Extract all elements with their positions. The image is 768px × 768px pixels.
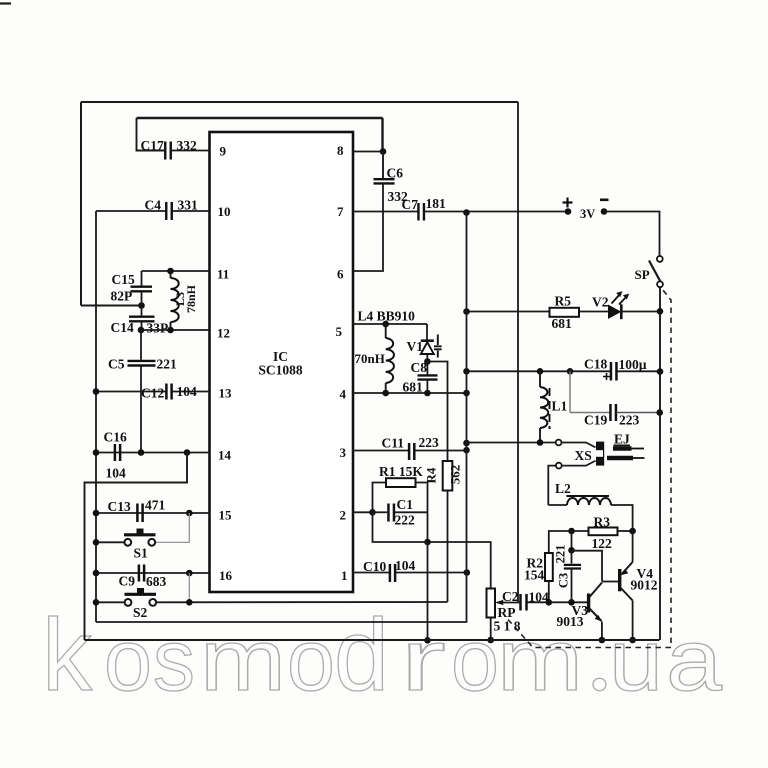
capacitor C15 (131, 287, 153, 292)
svg-text:332: 332 (177, 138, 198, 153)
wire C17 loop top (137, 117, 383, 119)
capacitor C12 (166, 384, 171, 400)
node C15-C14 junction (antenna tap) (138, 302, 145, 309)
junction battery row / long vertical (463, 209, 470, 216)
capacitor C14 (129, 317, 155, 322)
svg-text:R4: R4 (424, 467, 439, 483)
svg-text:104: 104 (106, 466, 127, 481)
svg-text:70nH: 70nH (355, 351, 385, 366)
switch S2 right contact (149, 599, 156, 606)
wire R1 loop left (373, 483, 387, 513)
wire R3 box to right node (618, 530, 633, 532)
svg-text:221: 221 (554, 545, 568, 564)
svg-text:u: u (609, 612, 663, 709)
switch S2 cap bar (125, 593, 157, 596)
LED V2 cathode bar (620, 304, 623, 319)
svg-text:9: 9 (220, 144, 227, 159)
capacitor C13 (137, 504, 142, 523)
svg-text:3: 3 (340, 445, 347, 460)
potentiometer RP body (487, 589, 496, 618)
junction base row / C3 (568, 599, 575, 606)
svg-text:8: 8 (337, 143, 344, 158)
svg-text:C9: C9 (119, 574, 136, 589)
wire C12 to left bus (96, 391, 166, 393)
wire pin12 row (141, 329, 210, 331)
svg-text:223: 223 (419, 435, 440, 450)
wire R3 node to R2 (549, 531, 572, 553)
svg-text:XS: XS (575, 448, 592, 463)
svg-text:683: 683 (146, 574, 167, 589)
junction C8 bottom / pin4 row (424, 390, 431, 397)
wire pin8 node down to C6 (382, 152, 384, 180)
svg-text:V2: V2 (592, 295, 609, 310)
svg-text:S1: S1 (134, 546, 149, 561)
svg-text:C14: C14 (111, 320, 134, 335)
junction S1 row / left bus (93, 539, 100, 546)
switch S1 button nub (137, 529, 144, 534)
capacitor C7 (418, 203, 424, 221)
svg-text:C18: C18 (584, 357, 607, 372)
wire V4 base row (602, 581, 618, 583)
svg-text:C13: C13 (108, 499, 131, 514)
wire pin2 node down to audio row (373, 512, 428, 542)
svg-text:R3: R3 (594, 515, 611, 530)
wire XS tip to plug (562, 443, 596, 448)
junction C5 / pin14 row (138, 449, 145, 456)
wire R3 node down (571, 531, 573, 550)
wire C3 top lead (571, 550, 573, 563)
LED V2 triangle (609, 305, 621, 318)
wire V4 collector to ground row (632, 601, 634, 641)
wire V3 base row (528, 601, 588, 603)
svg-text:16: 16 (219, 568, 233, 583)
junction L1 bottom / XS row (537, 439, 544, 446)
junction V4 collector / bottom row (629, 637, 636, 644)
wire pin4 row (353, 392, 467, 394)
wire L4 top lead (385, 324, 387, 338)
wire L2 left lead (548, 504, 567, 506)
resistor R1 body (386, 478, 416, 487)
capacitor C10 (390, 564, 395, 582)
wire C3 node to V4 base corner (572, 551, 603, 582)
capacitor C9 (139, 565, 144, 582)
wire antenna row into C15/C14 node (81, 305, 142, 307)
wire S2 to R4 bottom row (157, 601, 448, 603)
wire pin3 stub to C11 (353, 450, 409, 452)
op-amp/IC U1 SC1088 body (210, 132, 354, 592)
varactor V1 capacitor mark (434, 335, 442, 358)
wire C19 row left (570, 412, 610, 414)
wire bottom ground row (85, 639, 660, 641)
svg-text:C15: C15 (112, 272, 135, 287)
wire pin15 row (96, 512, 210, 514)
wire L3 top lead (170, 271, 172, 278)
wire C15 to antenna node (141, 292, 143, 306)
resistor R3 body (589, 528, 618, 536)
L2 core line (567, 495, 610, 497)
junction C3 top node (568, 547, 575, 554)
junction R3 right node (629, 528, 636, 535)
switch SP top contact (657, 256, 663, 262)
wire SP down right vertical (659, 288, 661, 640)
wire XS tip row (467, 442, 556, 444)
svg-text:d: d (334, 598, 389, 712)
wire pin11 row (142, 270, 210, 272)
junction C19 row / SP vertical (656, 409, 663, 416)
junction S2 link / pin16 row (186, 570, 193, 577)
wire left bus to S1 (96, 541, 124, 543)
junction XS row / long vertical (463, 440, 470, 447)
wire long vertical battery-to-622row (96, 213, 467, 623)
svg-text:3V: 3V (580, 207, 595, 221)
wire C3 bottom lead (571, 569, 573, 603)
svg-text:7: 7 (337, 204, 344, 219)
transistor V4 emitter arrow (621, 569, 629, 575)
svg-text:C11: C11 (382, 436, 405, 451)
wire C6 to pin6 corner (353, 184, 383, 272)
wire C17 to loop corner (137, 118, 166, 151)
junction pin16 row / left bus (93, 570, 100, 577)
svg-text:C4: C4 (145, 198, 162, 213)
svg-text:15: 15 (219, 508, 233, 523)
capacitor C17 (165, 142, 171, 160)
resistor R2 body (545, 553, 553, 581)
battery plus sign (563, 198, 573, 208)
L1 core dashes (549, 388, 551, 429)
svg-text:o: o (104, 612, 152, 709)
wire left bus vertical (95, 211, 97, 622)
junction C12 row / left bus (93, 388, 100, 395)
svg-text:5: 5 (336, 324, 343, 339)
watermark kosmodrom.ua (42, 598, 723, 712)
jack XS plug body (596, 442, 604, 466)
wire pin7 stub to C7 (353, 211, 419, 213)
wire R4 bottom to S2 row (447, 491, 449, 603)
svg-text:681: 681 (552, 316, 573, 331)
svg-text:221: 221 (157, 357, 178, 372)
junction inner-loop / pin14 row (184, 449, 191, 456)
svg-text:L4 BB910: L4 BB910 (358, 309, 416, 324)
svg-text:C16: C16 (104, 430, 127, 445)
capacitor C5 (128, 361, 156, 366)
transistor V3 base bar (587, 594, 590, 613)
junction V3 emitter / bottom row (599, 637, 606, 644)
wire L4 bottom lead (385, 383, 387, 393)
junction RP bottom / bottom row (487, 637, 494, 644)
svg-text:9013: 9013 (557, 614, 584, 629)
wire RP wiper from C2 (497, 602, 521, 604)
capacitor C4 (166, 202, 172, 220)
capacitor C3 (564, 565, 581, 569)
svg-text:C19: C19 (584, 413, 607, 428)
wire L1 top lead (539, 371, 541, 387)
svg-text:EJ: EJ (614, 432, 630, 447)
junction C11 row / long vertical (463, 447, 470, 454)
wire pin13 stub to C12 (173, 391, 210, 393)
wire C19 to SP vertical (617, 412, 660, 414)
junction audio node (R1C1/ground/RP) (424, 539, 431, 546)
svg-text:R1 15K: R1 15K (379, 464, 423, 479)
svg-text:S2: S2 (133, 605, 148, 620)
junction S2 row / pin16 link (186, 599, 193, 606)
junction L3 bottom / pin12 row (167, 327, 174, 334)
svg-text:78nH: 78nH (184, 284, 198, 313)
switch SP bottom contact (657, 281, 663, 287)
capacitor C16 (115, 444, 120, 461)
junction R3 left node (568, 528, 575, 535)
svg-text:104: 104 (395, 558, 416, 573)
wire RP bottom to ground row (490, 618, 492, 641)
transistor V4 base bar (618, 569, 621, 591)
switch S2 left contact (125, 599, 132, 606)
capacitor C8 (418, 375, 438, 379)
svg-text:C6: C6 (387, 166, 404, 181)
wire pin14 row (96, 452, 210, 454)
wire C5 top lead (140, 330, 142, 360)
C18 polarity plus (603, 373, 610, 380)
junction L1 top (537, 368, 544, 375)
svg-text:82P: 82P (111, 289, 133, 304)
wire battery minus to SP (604, 212, 660, 256)
switch S1 right contact (148, 539, 155, 546)
battery minus sign (600, 199, 609, 202)
junction base row / R2 (546, 599, 553, 606)
svg-text:562: 562 (448, 465, 463, 485)
svg-text:100µ: 100µ (619, 357, 647, 372)
svg-text:6: 6 (337, 267, 344, 282)
diode V1 triangle (421, 342, 434, 354)
svg-text:C1: C1 (397, 497, 414, 512)
inductor L4 (386, 338, 394, 383)
wire V2 to SP vertical (623, 311, 661, 313)
wire vertical x518 top-to-wiper (517, 102, 519, 603)
svg-text:L1: L1 (552, 399, 568, 414)
junction L4 bottom / pin4 row (382, 390, 389, 397)
wire C14 to pin12 node (141, 322, 143, 330)
wire R1 right corner down (416, 483, 428, 543)
svg-text:r: r (400, 612, 446, 709)
junction audio gnd / bottom row (424, 637, 431, 644)
svg-text:10: 10 (218, 204, 231, 219)
wire C11 to long vertical (415, 450, 467, 452)
resistor R4 body (443, 461, 453, 491)
transistor V3 emitter (590, 609, 602, 622)
svg-text:5 1 8: 5 1 8 (494, 619, 521, 634)
wire pin16 to S2 link (188, 573, 190, 602)
junction C18 row / SP vertical (657, 368, 664, 375)
junction S1 link / pin15 row (186, 510, 193, 517)
svg-text:SP: SP (635, 267, 650, 282)
svg-text:C5: C5 (108, 357, 125, 372)
wire C4 to left bus corner (96, 210, 166, 212)
capacitor C11 (409, 443, 414, 460)
earphone EJ bottom plug (607, 456, 633, 461)
wire pin2 stub (353, 511, 373, 513)
wire R5 to V2 (579, 311, 609, 313)
junction V1/C8/R4 node (424, 358, 431, 365)
RP wiper arrowhead (495, 600, 503, 605)
svg-text:R5: R5 (555, 294, 572, 309)
svg-text:154: 154 (524, 568, 545, 583)
svg-text:33P: 33P (147, 321, 169, 336)
wire pin2 node to C1 (373, 511, 388, 513)
inductor L1 (540, 387, 548, 428)
junction R5 row / long vertical (463, 308, 470, 315)
wire V1 corner down (426, 324, 428, 340)
svg-text:222: 222 (395, 513, 416, 528)
wire V3 emitter to ground row (601, 622, 603, 641)
junction L3 top / pin11 row (167, 268, 174, 275)
capacitor C18 (611, 362, 617, 381)
svg-text:C17: C17 (141, 138, 164, 153)
svg-text:13: 13 (219, 386, 233, 401)
wire pin8 stub (353, 151, 383, 153)
transistor V4 collector (621, 588, 633, 601)
inductor L3 (171, 278, 179, 322)
wire XS sleeve tick (562, 461, 596, 466)
wire pin1 stub to C10 (353, 572, 390, 574)
wire V1 node to R4 top (427, 362, 447, 462)
svg-text:o: o (287, 612, 335, 709)
svg-text:11: 11 (217, 267, 229, 282)
wire L2 right lead to R3 node (611, 505, 633, 531)
svg-text:a: a (666, 612, 723, 709)
svg-text:181: 181 (426, 196, 447, 211)
svg-text:223: 223 (619, 413, 640, 428)
junction pin4 row / long vertical (463, 390, 470, 397)
svg-text:C3: C3 (557, 573, 571, 588)
wire C19 vertical from C18 row (569, 371, 571, 412)
junction pin15 row / left bus (93, 510, 100, 517)
wire S1 to pin15 link (156, 513, 189, 542)
wire pin10 stub to C4 (173, 210, 210, 212)
svg-text:122: 122 (592, 536, 613, 551)
svg-text:12: 12 (217, 326, 230, 341)
junction pin8 node (380, 148, 387, 155)
svg-text:14: 14 (218, 448, 232, 463)
battery plus terminal (565, 208, 572, 215)
resistor R5 body (550, 308, 580, 317)
wire node to C14 (141, 306, 143, 316)
LED V2 emission arrows (612, 294, 621, 304)
capacitor C1 (388, 504, 394, 522)
wire R2 bottom to base row (548, 581, 550, 602)
earphone EJ underline (614, 444, 631, 446)
svg-text:s: s (153, 612, 195, 709)
wire RP top to audio node (428, 542, 491, 589)
wire inner loop down-left-down (85, 453, 188, 641)
capacitor C6 (374, 179, 395, 183)
svg-text:L2: L2 (555, 481, 571, 496)
svg-text:o: o (451, 612, 499, 709)
svg-text:C8: C8 (411, 360, 428, 375)
transistor V3 emitter arrow (595, 615, 602, 622)
svg-text:C7: C7 (402, 197, 419, 212)
battery minus terminal (601, 208, 608, 215)
svg-text:9012: 9012 (631, 578, 658, 593)
switch S1 left contact (124, 539, 131, 546)
junction C10 row / long vertical (464, 569, 471, 576)
junction S2 row / left bus (93, 599, 100, 606)
wire left bus to S2 (96, 601, 124, 603)
junction pin14 row / left bus (93, 449, 100, 456)
svg-text:m: m (200, 612, 286, 709)
wire L3 bottom lead (170, 322, 172, 330)
svg-text:C12: C12 (141, 386, 164, 401)
inductor L2 (567, 498, 611, 505)
junction pin2 node (369, 509, 376, 516)
wire pin5 row (353, 323, 427, 325)
svg-text:C10: C10 (363, 559, 386, 574)
wire C5 bottom lead (140, 367, 142, 453)
wire loop down to pin8 node (381, 118, 383, 152)
wire C10 to long vertical (396, 572, 467, 574)
wire R3 right node down to V4 emitter (632, 531, 634, 562)
wire C18 row left (467, 370, 611, 372)
junction C19 branch top (567, 368, 574, 375)
wire audio node down to ground row (427, 542, 429, 640)
wire pin16 row (96, 572, 210, 574)
svg-text:104: 104 (529, 590, 550, 605)
capacitor C19 (610, 404, 616, 421)
wire long-vertical to R5 (467, 311, 550, 313)
jack XS sleeve contact (556, 463, 562, 469)
transistor V3 collector (590, 583, 603, 598)
diode V1 cathode bar (421, 339, 434, 342)
switch S1 cap bar (124, 533, 156, 536)
wire top outer (antenna loop top) (81, 101, 518, 103)
svg-text:SC1088: SC1088 (258, 363, 303, 378)
dashed link RP to SP (508, 290, 671, 648)
wire C1 right to R1 right vertical (395, 511, 428, 513)
capacitor C2 (521, 594, 527, 611)
svg-text:1: 1 (341, 568, 348, 583)
svg-text:4: 4 (340, 387, 347, 402)
svg-text:V1: V1 (407, 339, 424, 354)
wire V1 anode to node (426, 354, 428, 362)
junction C18 row / long vertical (463, 368, 470, 375)
svg-text:331: 331 (178, 198, 199, 213)
transistor V4 emitter (622, 562, 633, 574)
junction C14 bottom / pin12 row (138, 327, 145, 334)
wire C8 top lead (426, 362, 428, 375)
wire pin9 stub to C17 (171, 150, 210, 152)
wire XS sleeve to L2 (548, 466, 555, 505)
junction L4 top (382, 321, 389, 328)
svg-text:471: 471 (145, 498, 166, 513)
jack XS tip contact (556, 440, 562, 446)
earphone EJ top plug (613, 446, 632, 451)
wire C18 to SP vertical (617, 370, 660, 372)
wire left outer vertical (antenna) (80, 102, 82, 306)
wire C7 to battery plus (425, 211, 569, 213)
wire C8 bottom lead (426, 380, 428, 393)
switch SP lever (649, 261, 660, 282)
svg-text:2: 2 (340, 508, 347, 523)
wire R3 left node to box (572, 530, 589, 532)
svg-text:104: 104 (177, 384, 198, 399)
switch S2 button nub (137, 588, 144, 593)
junction V2 row / SP vertical (657, 308, 664, 315)
wire pin11 corner to C15 (141, 271, 143, 286)
scan mark top-left corner (0, 2, 11, 4)
wire L1 bottom lead (539, 428, 541, 443)
